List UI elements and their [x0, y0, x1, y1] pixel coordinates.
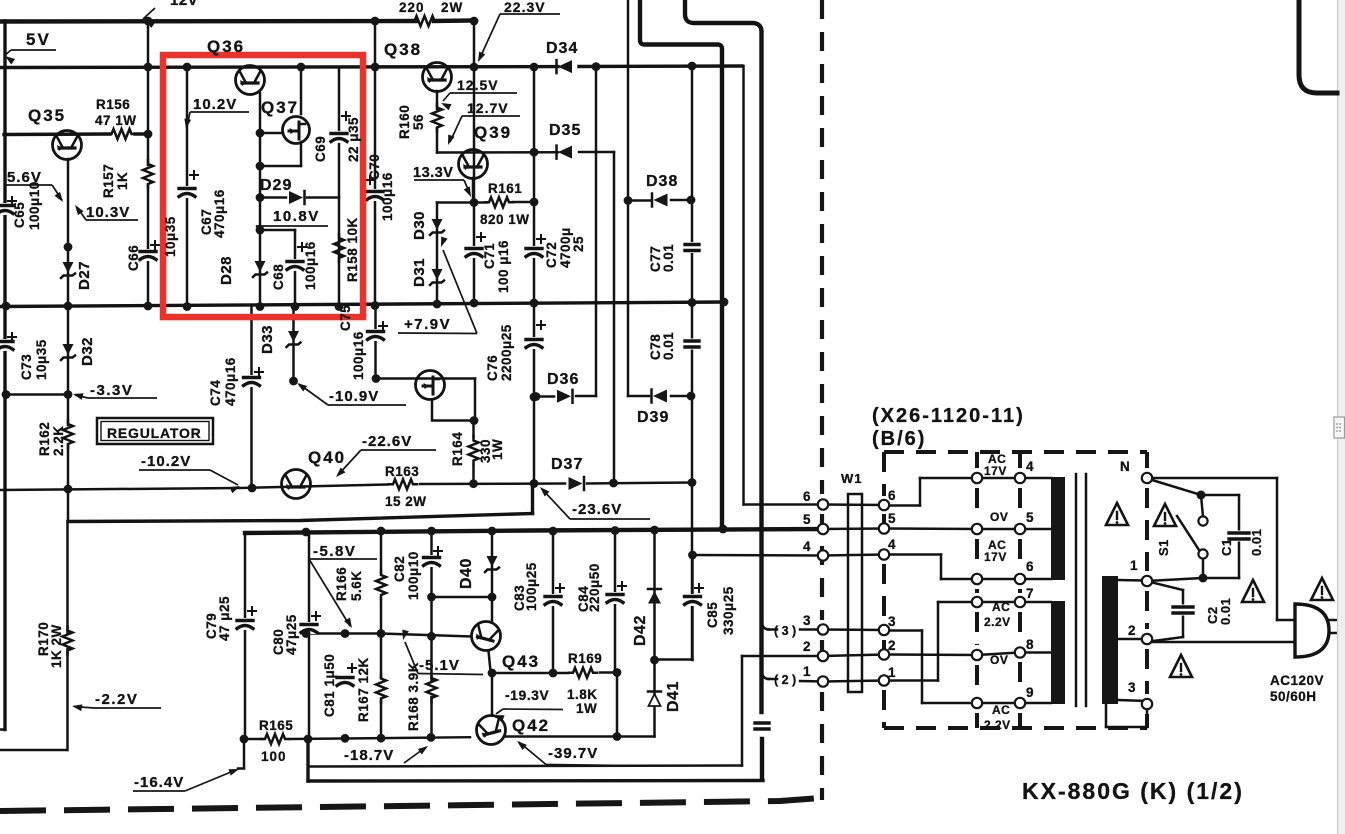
svg-text:+7.9V: +7.9V [404, 316, 451, 333]
transformer core [1075, 474, 1078, 706]
transistor Q42 [477, 716, 506, 745]
svg-text:17V: 17V [984, 464, 1007, 478]
svg-text:( 3 ): ( 3 ) [774, 624, 796, 638]
svg-text:R166: R166 [334, 567, 349, 601]
svg-text:100μ10: 100μ10 [27, 181, 42, 230]
wire [0, 0, 823, 781]
svg-text:47μ25: 47μ25 [284, 614, 299, 655]
svg-text:Q37: Q37 [261, 98, 299, 117]
svg-text:C74: C74 [208, 380, 223, 406]
svg-text:C72: C72 [544, 242, 559, 268]
svg-text:100μ10: 100μ10 [406, 551, 421, 600]
svg-text:220: 220 [399, 0, 425, 15]
transistor Q38 [423, 63, 452, 92]
resistor R162 [63, 420, 73, 448]
svg-text:OV: OV [990, 653, 1008, 667]
svg-text:R161: R161 [488, 181, 522, 196]
svg-text:100: 100 [261, 749, 287, 764]
capacitor AC line [754, 721, 770, 732]
zener D40 [485, 556, 499, 572]
diode D38 [652, 194, 668, 207]
svg-text:D33: D33 [259, 325, 276, 354]
diode D42 [648, 589, 661, 604]
diode D36 [557, 390, 573, 403]
svg-text:13.3V: 13.3V [413, 165, 453, 181]
svg-text:D34: D34 [546, 40, 578, 57]
svg-text:Q36: Q36 [207, 37, 245, 56]
svg-text:5: 5 [888, 511, 896, 526]
diode D41 [648, 692, 661, 707]
transistor Q39 [459, 150, 488, 179]
svg-text:-10.2V: -10.2V [141, 453, 191, 470]
svg-text:4: 4 [1026, 459, 1034, 474]
svg-text:3: 3 [1128, 680, 1136, 695]
svg-text:6: 6 [888, 488, 896, 503]
svg-text:10.3V: 10.3V [86, 204, 130, 221]
svg-text:22 μ35: 22 μ35 [346, 117, 361, 162]
svg-text:4: 4 [803, 539, 811, 554]
svg-text:47 μ25: 47 μ25 [217, 596, 232, 641]
resistor R169 [569, 668, 597, 678]
zener D33 [287, 331, 301, 347]
svg-text:D37: D37 [551, 456, 583, 473]
svg-text:-39.7V: -39.7V [548, 745, 598, 762]
switch S1 and line filter [1146, 478, 1295, 642]
svg-text:-5.8V: -5.8V [313, 543, 356, 560]
svg-text:25: 25 [571, 236, 586, 252]
svg-text:R162: R162 [37, 422, 52, 456]
capacitor C80 [300, 622, 318, 634]
resistor R170 [63, 627, 73, 655]
svg-text:2200μ25: 2200μ25 [499, 324, 514, 381]
diode D35 [557, 146, 573, 159]
svg-text:AC: AC [992, 600, 1010, 614]
svg-text:Q43: Q43 [502, 652, 540, 671]
resistor R156 [108, 129, 136, 139]
svg-text:S1: S1 [1156, 539, 1171, 556]
svg-text:Q40: Q40 [308, 448, 346, 467]
transistor Q43 [472, 622, 501, 651]
svg-text:12.7V: 12.7V [467, 100, 509, 116]
svg-text:330μ25: 330μ25 [721, 586, 736, 635]
resistor R161 [485, 197, 513, 207]
svg-text:D42: D42 [632, 615, 649, 646]
svg-text:7: 7 [1026, 586, 1034, 601]
resistor 220 2W [411, 16, 439, 26]
connector dashed boundary x=822 [820, 0, 824, 800]
capacitor C74 [243, 375, 261, 387]
voltage pointers [143, 8, 155, 19]
svg-text:R156: R156 [96, 97, 130, 112]
svg-text:22.3V: 22.3V [504, 0, 546, 15]
svg-text:C85: C85 [705, 602, 720, 628]
svg-text:R157: R157 [101, 164, 116, 198]
svg-text:12V: 12V [170, 0, 198, 9]
svg-text:R168 3.9K: R168 3.9K [406, 662, 421, 731]
svg-text:D36: D36 [547, 371, 579, 388]
capacitor C75 [367, 329, 385, 341]
svg-text:D39: D39 [637, 409, 669, 426]
svg-text:0.01: 0.01 [1249, 529, 1264, 556]
svg-text:Q38: Q38 [384, 40, 422, 59]
svg-text:12.5V: 12.5V [457, 77, 499, 93]
svg-text:R158 10K: R158 10K [345, 217, 360, 282]
capacitor C67 [178, 186, 196, 198]
capacitor C70 [366, 189, 384, 201]
svg-text:1W: 1W [490, 439, 505, 460]
svg-text:Q42: Q42 [512, 716, 550, 735]
svg-text:100μ25: 100μ25 [524, 562, 539, 611]
zener D30 [430, 219, 444, 235]
svg-text:W1: W1 [841, 471, 863, 486]
svg-text:C76: C76 [485, 355, 500, 381]
svg-text:Q35: Q35 [28, 106, 66, 125]
resistor R166 [376, 571, 386, 599]
junction dots [144, 17, 153, 26]
svg-text:100μ16: 100μ16 [351, 331, 366, 380]
transistor Q37 [283, 117, 310, 144]
svg-text:C1: C1 [1219, 538, 1234, 556]
svg-text:R167 12K: R167 12K [356, 657, 371, 722]
warning triangles [1106, 503, 1128, 525]
svg-text:2: 2 [803, 639, 811, 654]
svg-text:1: 1 [1130, 558, 1138, 573]
transistor Q41 [416, 371, 445, 400]
svg-text:5: 5 [803, 512, 811, 527]
svg-text:-18.7V: -18.7V [344, 747, 394, 764]
svg-text:Q39: Q39 [474, 123, 512, 142]
resistor R164 [469, 437, 479, 465]
svg-text:47 1W: 47 1W [95, 113, 137, 128]
svg-text:D30: D30 [411, 211, 428, 240]
capacitor C65 [0, 203, 14, 215]
svg-text:-16.4V: -16.4V [134, 774, 184, 791]
capacitor C72 [525, 246, 543, 258]
resistor R160 [432, 104, 442, 132]
svg-text:1K: 1K [115, 172, 130, 190]
svg-text:0.01: 0.01 [661, 332, 676, 360]
svg-text:5: 5 [1026, 510, 1034, 525]
resistor R163 [389, 479, 417, 489]
transformer X26 dashed box [884, 452, 1147, 728]
svg-text:15 2W: 15 2W [385, 494, 427, 509]
svg-text:-23.6V: -23.6V [572, 501, 622, 518]
svg-text:470μ16: 470μ16 [212, 189, 227, 238]
svg-text:1W: 1W [576, 701, 597, 716]
svg-text:C81 1μ50: C81 1μ50 [322, 654, 337, 717]
diode D29 [289, 191, 305, 204]
svg-text:0.01: 0.01 [661, 244, 676, 272]
svg-text:17V: 17V [984, 550, 1007, 564]
svg-text:1.8K: 1.8K [567, 687, 598, 702]
svg-text:KX-880G (K) (1/2): KX-880G (K) (1/2) [1022, 778, 1244, 804]
capacitor C77 [684, 242, 700, 253]
svg-text:-5.1V: -5.1V [419, 657, 460, 674]
capacitor C84 [606, 592, 624, 604]
transistor Q40 [282, 470, 311, 499]
capacitor C82 [423, 555, 441, 567]
diode D39 [652, 390, 668, 403]
bottom dashed board edge [0, 798, 820, 811]
capacitor C66 [139, 249, 157, 261]
svg-text:C71: C71 [482, 243, 497, 269]
svg-text:2.2K: 2.2K [51, 425, 66, 456]
capacitor C68 [286, 259, 304, 271]
svg-text:3: 3 [888, 614, 896, 629]
zener D27 [61, 262, 75, 278]
svg-text:1: 1 [803, 664, 811, 679]
svg-text:D27: D27 [76, 261, 93, 290]
svg-text:D38: D38 [646, 173, 678, 190]
svg-text:D29: D29 [260, 177, 292, 194]
svg-text:8: 8 [1026, 637, 1034, 652]
diode D37 [569, 477, 585, 490]
svg-text:N: N [1120, 459, 1130, 474]
svg-text:-10.9V: -10.9V [329, 388, 379, 405]
svg-text:6: 6 [1026, 559, 1034, 574]
svg-text:(B/6): (B/6) [872, 428, 926, 450]
svg-text:2: 2 [1128, 623, 1136, 638]
svg-text:OV: OV [990, 510, 1008, 524]
ui scrollbar [1337, 0, 1345, 834]
capacitor C73 [0, 339, 14, 351]
svg-text:0.01: 0.01 [1218, 598, 1233, 625]
svg-text:10.2V: 10.2V [193, 96, 237, 113]
svg-text:10μ35: 10μ35 [163, 216, 178, 257]
svg-text:1K 2W: 1K 2W [49, 624, 64, 668]
connector pins [818, 499, 828, 509]
svg-text:2: 2 [888, 638, 896, 653]
resistor R158 [334, 234, 344, 262]
svg-text:C73: C73 [19, 354, 34, 380]
svg-text:2.2V: 2.2V [984, 718, 1011, 732]
svg-text:-22.6V: -22.6V [362, 433, 412, 450]
capacitor C76 [525, 337, 543, 349]
wire transformer internal [823, 478, 1147, 727]
capacitor C69 [330, 131, 348, 143]
svg-text:C75: C75 [338, 305, 353, 331]
svg-text:REGULATOR: REGULATOR [107, 425, 202, 441]
svg-text:-3.3V: -3.3V [90, 382, 133, 399]
svg-text:C68: C68 [271, 264, 286, 290]
resistor R168 [427, 674, 437, 702]
svg-text:100 μ16: 100 μ16 [496, 240, 511, 293]
svg-text:R165: R165 [259, 718, 293, 733]
svg-text:D41: D41 [665, 681, 682, 712]
svg-text:D31: D31 [411, 258, 428, 287]
transformer winding bars [1051, 477, 1065, 580]
connector W1 body [848, 494, 862, 692]
svg-text:50/60H: 50/60H [1270, 689, 1317, 704]
svg-text:R160: R160 [397, 105, 412, 139]
svg-text:5V: 5V [26, 30, 51, 49]
svg-text:10.8V: 10.8V [273, 208, 320, 225]
svg-text:-19.3V: -19.3V [505, 687, 549, 703]
svg-text:820 1W: 820 1W [480, 212, 530, 227]
zener D31 [430, 269, 444, 285]
svg-text:R169: R169 [568, 651, 602, 666]
svg-text:C69: C69 [313, 136, 328, 162]
svg-text:D40: D40 [458, 558, 475, 589]
svg-text:1: 1 [888, 665, 896, 680]
svg-text:3: 3 [803, 613, 811, 628]
svg-text:2.2V: 2.2V [984, 615, 1011, 629]
capacitor C79 [236, 618, 254, 630]
svg-text:R164: R164 [450, 432, 465, 466]
svg-text:D28: D28 [218, 256, 235, 285]
capacitor C85 [684, 594, 702, 606]
capacitor C81 [336, 675, 354, 687]
zener D32 [61, 344, 75, 360]
svg-text:AC120V: AC120V [1270, 673, 1324, 688]
svg-text:R163: R163 [385, 464, 419, 479]
resistor R167 [376, 675, 386, 703]
red highlight box [163, 55, 363, 317]
svg-text:-2.2V: -2.2V [95, 691, 138, 708]
svg-text:10μ35: 10μ35 [34, 339, 49, 380]
AC plug [1295, 604, 1329, 657]
svg-text:5.6K: 5.6K [349, 570, 364, 601]
svg-text:9: 9 [1026, 685, 1034, 700]
resistor R165 [261, 734, 289, 744]
svg-text:C65: C65 [12, 202, 27, 228]
resistor R157 [143, 160, 153, 188]
svg-text:4: 4 [888, 537, 896, 552]
capacitor C83 [544, 594, 562, 606]
svg-text:( 2 ): ( 2 ) [774, 673, 796, 687]
zener D28 [253, 261, 267, 277]
svg-text:2W: 2W [441, 0, 463, 15]
svg-text:C82: C82 [392, 556, 407, 582]
svg-text:D35: D35 [549, 122, 581, 139]
svg-text:(X26-1120-11): (X26-1120-11) [872, 405, 1025, 427]
svg-text:6: 6 [803, 489, 811, 504]
svg-text:AC: AC [992, 703, 1010, 717]
capacitor C78 [684, 339, 700, 350]
diode D34 [557, 60, 573, 73]
svg-text:100μ16: 100μ16 [380, 172, 395, 221]
svg-text:220μ50: 220μ50 [587, 563, 602, 612]
transistor Q35 [53, 131, 82, 160]
svg-text:470μ16: 470μ16 [223, 357, 238, 406]
svg-text:56: 56 [411, 114, 426, 130]
svg-text:D32: D32 [79, 337, 96, 366]
capacitor C71 [465, 246, 483, 258]
svg-text:C66: C66 [126, 245, 141, 271]
transistor Q36 [236, 66, 265, 95]
svg-text:100μ16: 100μ16 [303, 241, 318, 290]
